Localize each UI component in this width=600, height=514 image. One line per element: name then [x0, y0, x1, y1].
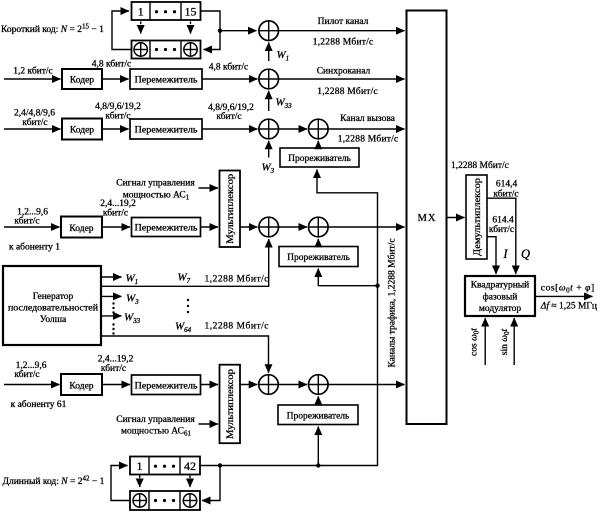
svg-text:1,2288 Мбит/с: 1,2288 Мбит/с	[313, 37, 374, 48]
svg-text:614,4: 614,4	[496, 180, 518, 190]
svg-text:1,2288 Мбит/с: 1,2288 Мбит/с	[317, 86, 378, 97]
svg-text:Короткий код: N = 215 − 1: Короткий код: N = 215 − 1	[1, 23, 104, 36]
wire walsh W3 out	[101, 295, 122, 297]
long code register xor box	[130, 491, 200, 510]
svg-text:1,2288 Мбит/с: 1,2288 Мбит/с	[338, 134, 399, 145]
coder traffic1	[61, 217, 102, 238]
svg-text:Кодер: Кодер	[69, 224, 93, 234]
svg-text:кбит/с: кбит/с	[22, 117, 47, 128]
short code register xor box	[132, 41, 201, 59]
svg-text:Каналы трафика, 1,2288 Мбит/с: Каналы трафика, 1,2288 Мбит/с	[387, 238, 398, 367]
node trunk junction traffic1	[375, 284, 379, 288]
adder traffic61 2	[309, 375, 329, 395]
svg-text:Прореживатель: Прореживатель	[287, 411, 350, 421]
svg-text:Перемежитель: Перемежитель	[135, 381, 199, 391]
svg-text:кбит/с: кбит/с	[14, 369, 39, 380]
svg-text:мощностью АС1: мощностью АС1	[123, 191, 190, 202]
svg-text:Мультиплексор: Мультиплексор	[226, 369, 236, 439]
svg-text:кбит/с: кбит/с	[101, 363, 126, 374]
wire interleaver to sync adder	[202, 78, 257, 80]
svg-text:Q: Q	[521, 247, 530, 261]
svg-text:42: 42	[184, 459, 196, 473]
MX box	[407, 11, 447, 425]
wire paging input	[4, 128, 61, 130]
wire long code trunk	[220, 170, 378, 466]
node trunk junction traffic61	[316, 463, 320, 467]
svg-text:кбит/с: кбит/с	[103, 208, 128, 219]
wire paging adder1 to adder2	[279, 128, 308, 130]
svg-text:фазовый: фазовый	[483, 292, 518, 303]
long code output wire	[200, 466, 220, 501]
wire W33 into sync adder	[268, 91, 270, 111]
wire trunk branch to decimator61	[317, 427, 319, 466]
svg-text:1: 1	[138, 4, 144, 18]
svg-text:Δf ≈ 1,25 МГц: Δf ≈ 1,25 МГц	[540, 301, 597, 312]
wire walsh W1 out	[101, 276, 122, 278]
svg-text:МХ: МХ	[418, 213, 437, 224]
wire W1 into pilot adder	[268, 43, 270, 62]
wire walsh W7 to traffic1 adder	[101, 239, 269, 286]
svg-text:Кодер: Кодер	[70, 75, 94, 85]
svg-text:614.4: 614.4	[492, 216, 514, 226]
wire interleaver to paging adder	[202, 128, 257, 130]
wire walsh W64 to traffic61 adder	[101, 336, 269, 373]
wire modulator output	[535, 295, 593, 297]
wire traffic1 input	[4, 226, 60, 228]
svg-text:кбит/с: кбит/с	[105, 111, 130, 122]
node long code junction	[218, 463, 222, 467]
node dots generator lower	[112, 323, 114, 334]
wire traffic61 adder1 to adder2	[278, 384, 307, 386]
wire walsh W33 out	[101, 315, 122, 317]
wire traffic61 to MX	[328, 384, 404, 386]
svg-text:1,2 кбит/с: 1,2 кбит/с	[13, 66, 53, 77]
svg-text:к абоненту 61: к абоненту 61	[11, 399, 67, 410]
demux box	[466, 175, 487, 259]
interleaver sync	[130, 69, 202, 89]
coder traffic61	[61, 374, 102, 395]
modulator box	[465, 276, 535, 316]
svg-text:2,4...19,2: 2,4...19,2	[98, 355, 134, 365]
svg-text:Генератор: Генератор	[33, 292, 74, 302]
wire coder to interleaver traffic61	[102, 384, 130, 386]
svg-text:Квадратурный: Квадратурный	[471, 280, 530, 291]
adder traffic61 1	[259, 375, 279, 395]
svg-text:1,2288 Мбит/с: 1,2288 Мбит/с	[205, 274, 269, 285]
wire sin carrier in	[513, 318, 515, 365]
svg-text:кбит/с: кбит/с	[216, 111, 241, 122]
wire coder to interleaver traffic1	[102, 226, 130, 228]
wire traffic1 to MX	[328, 226, 404, 228]
mux traffic61	[220, 365, 241, 444]
svg-text:1: 1	[137, 459, 143, 473]
interleaver traffic61	[132, 375, 201, 395]
interleaver paging	[130, 119, 202, 139]
wire mux61 to traffic61 adder	[240, 384, 257, 386]
wire W3 into paging adder	[268, 141, 270, 158]
wire interleaver to mux traffic1	[201, 226, 219, 228]
node dots walsh right column	[187, 299, 189, 313]
wire interleaver to mux traffic61	[201, 384, 219, 386]
short code feedback wire	[112, 11, 132, 50]
svg-text:Перемежитель: Перемежитель	[135, 75, 199, 85]
svg-text:модулятор: модулятор	[479, 304, 522, 314]
svg-text:1,2288 Мбит/с: 1,2288 Мбит/с	[451, 160, 509, 171]
wire paging channel to MX	[328, 128, 404, 130]
mux traffic1	[220, 171, 241, 248]
svg-text:15: 15	[185, 4, 197, 18]
svg-text:Кодер: Кодер	[69, 381, 93, 391]
long code feedback wire	[111, 466, 130, 501]
wire decimator to paging adder2	[317, 141, 319, 148]
walsh generator	[3, 266, 101, 345]
svg-text:1,2288 Мбит/с: 1,2288 Мбит/с	[205, 321, 269, 332]
svg-text:2,4/4,8/9,6: 2,4/4,8/9,6	[14, 109, 55, 119]
svg-text:Прореживатель: Прореживатель	[287, 253, 350, 263]
svg-text:Уолша: Уолша	[40, 315, 67, 325]
short code register top box	[132, 2, 201, 20]
svg-text:Мультиплексор: Мультиплексор	[226, 174, 236, 244]
decimator traffic61	[278, 405, 358, 425]
svg-text:4,8/9,6/19,2: 4,8/9,6/19,2	[95, 102, 141, 112]
decimator paging	[280, 148, 359, 167]
svg-text:Канал вызова: Канал вызова	[340, 114, 396, 124]
svg-text:Демультиплексор: Демультиплексор	[473, 178, 483, 256]
long code register top box	[130, 457, 200, 475]
wire power control into mux1	[199, 187, 219, 189]
wire demux I out	[487, 237, 496, 274]
svg-text:Длинный код: N = 242 − 1: Длинный код: N = 242 − 1	[3, 475, 105, 488]
wire sync channel to MX	[279, 78, 405, 80]
interleaver traffic1	[132, 218, 201, 237]
svg-text:к абоненту 1: к абоненту 1	[9, 242, 60, 253]
wire demux Q out	[487, 198, 516, 274]
adder paging 1	[259, 119, 279, 139]
wire decimator to traffic1 adder2	[317, 239, 319, 247]
node short code junction	[218, 29, 222, 33]
long code dashed taps	[139, 476, 141, 488]
decimator traffic1	[279, 247, 358, 267]
svg-text:Сигнал управления: Сигнал управления	[116, 179, 195, 189]
short code dashed taps	[140, 22, 142, 34]
svg-text:Синхроканал: Синхроканал	[317, 67, 371, 77]
coder sync	[62, 69, 102, 89]
wire traffic1 adder1 to adder2	[279, 226, 308, 228]
svg-text:последовательностей: последовательностей	[8, 303, 98, 314]
svg-text:2,4...19,2: 2,4...19,2	[100, 199, 136, 209]
wire power control into mux61	[199, 423, 219, 425]
svg-text:Сигнал управления: Сигнал управления	[116, 415, 195, 425]
adder traffic1 2	[309, 217, 329, 237]
adder pilot	[259, 21, 279, 41]
wire pilot channel to MX	[279, 30, 405, 32]
wire trunk branch to decimator1	[318, 269, 377, 286]
wire cos carrier in	[484, 318, 486, 365]
svg-text:мощностью АС61: мощностью АС61	[121, 427, 192, 438]
wire MX to demux	[447, 217, 465, 219]
svg-text:Кодер: Кодер	[70, 125, 94, 135]
adder traffic1 1	[259, 217, 279, 237]
wire short code to pilot adder	[220, 30, 257, 32]
svg-text:4,8 кбит/с: 4,8 кбит/с	[92, 59, 132, 70]
svg-text:4,8 кбит/с: 4,8 кбит/с	[209, 62, 249, 73]
short code output wire	[201, 11, 221, 50]
adder sync	[259, 69, 279, 89]
wire sync input	[4, 78, 61, 80]
svg-text:Перемежитель: Перемежитель	[135, 125, 199, 135]
svg-text:кбит/с: кбит/с	[489, 224, 514, 235]
coder paging	[62, 119, 102, 140]
adder paging 2	[309, 119, 329, 139]
node dots generator upper	[112, 302, 114, 313]
svg-text:Пилот канал: Пилот канал	[318, 17, 369, 27]
svg-text:Перемежитель: Перемежитель	[135, 224, 199, 234]
wire coder to interleaver paging	[102, 128, 129, 130]
wire coder to interleaver	[102, 78, 129, 80]
wire decimator to traffic61 adder2	[317, 396, 319, 405]
svg-text:кбит/с: кбит/с	[493, 189, 518, 200]
svg-text:I: I	[502, 247, 508, 261]
wire traffic61 input	[4, 384, 60, 386]
svg-text:кбит/с: кбит/с	[14, 216, 39, 227]
wire mux1 to traffic1 adder	[240, 226, 257, 228]
svg-text:Прореживатель: Прореживатель	[288, 154, 351, 164]
